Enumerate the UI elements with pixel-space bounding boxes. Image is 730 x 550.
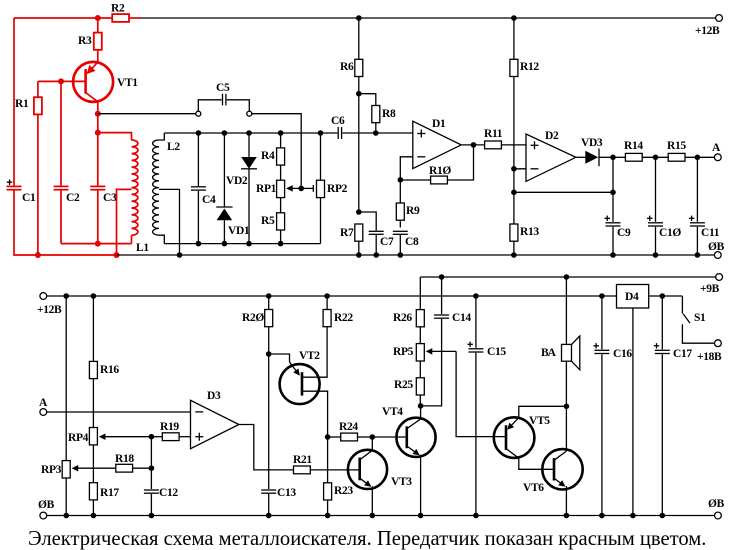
svg-text:C2: C2 xyxy=(66,192,80,204)
wire +9V rail xyxy=(420,276,715,278)
svg-text:L1: L1 xyxy=(136,242,149,254)
op-amp D1 xyxy=(413,118,461,169)
wire C5 node line xyxy=(98,113,196,115)
resistor R21 xyxy=(293,454,360,474)
svg-text:C17: C17 xyxy=(673,348,692,360)
svg-text:D3: D3 xyxy=(207,390,221,402)
potentiometer RP5 xyxy=(393,344,456,378)
node RP3 top xyxy=(63,293,69,299)
svg-text:R25: R25 xyxy=(394,379,413,391)
resistor R18 xyxy=(115,453,151,472)
wire VT4 base link xyxy=(372,436,407,438)
node C4 bottom xyxy=(196,241,202,247)
resistor R17 xyxy=(89,483,119,516)
resistor R16 xyxy=(89,296,119,428)
capacitor C10 xyxy=(647,157,681,255)
svg-text:R2: R2 xyxy=(111,3,125,15)
transistor VT2 xyxy=(280,327,328,437)
node R18 right junction xyxy=(149,465,155,471)
svg-text:VT1: VT1 xyxy=(117,77,138,89)
svg-text:VD3: VD3 xyxy=(581,137,603,149)
transistor VT6 xyxy=(523,406,583,515)
node R22 top xyxy=(324,293,330,299)
node VT3 collector junction xyxy=(370,434,376,440)
svg-text:R7: R7 xyxy=(340,227,354,239)
wire C6 to D1 plus input xyxy=(342,132,412,134)
node C10 bottom xyxy=(653,252,659,258)
node red C5 line xyxy=(95,111,101,117)
svg-text:R12: R12 xyxy=(520,61,539,73)
wire VT1 collector down xyxy=(97,102,99,186)
svg-text:D4: D4 xyxy=(625,291,639,303)
svg-text:+12В: +12В xyxy=(695,25,720,37)
terminal +12V top xyxy=(695,15,722,37)
svg-text:R19: R19 xyxy=(160,421,179,433)
svg-text:ØВ: ØВ xyxy=(38,499,55,511)
capacitor C8 xyxy=(393,231,419,255)
resistor R14 xyxy=(613,140,668,161)
node R8 bottom xyxy=(373,130,379,136)
node C12 bottom rail xyxy=(149,513,155,519)
wire red C2/C3/L1 bottom link xyxy=(61,243,132,245)
svg-text:R6: R6 xyxy=(340,61,354,73)
diode VD1 xyxy=(216,133,250,244)
resistor R24 xyxy=(328,421,373,441)
node D4 bottom rail xyxy=(630,513,636,519)
wire 0V rail top section xyxy=(117,254,715,256)
node R12 top xyxy=(511,15,517,21)
resistor R5 xyxy=(261,198,285,244)
node R14/R15/C10 junction xyxy=(653,155,659,161)
svg-text:C16: C16 xyxy=(613,348,632,360)
node BA top rail xyxy=(564,274,570,280)
svg-text:D2: D2 xyxy=(545,130,559,142)
diode VD2 xyxy=(226,133,257,244)
potentiometer RP1 xyxy=(256,180,301,197)
node C16 bottom rail xyxy=(599,513,605,519)
node R6/R8 junction xyxy=(356,91,362,97)
resistor R11 xyxy=(484,128,526,149)
op-amp D2 xyxy=(526,130,576,181)
svg-text:C11: C11 xyxy=(701,227,720,239)
svg-text:ВА: ВА xyxy=(541,347,557,359)
node wiper junction RP4 xyxy=(149,434,155,440)
wire D4 output to switch xyxy=(649,295,683,297)
resistor R2 xyxy=(111,3,141,22)
node RP1 wiper junction xyxy=(298,186,304,192)
svg-text:R26: R26 xyxy=(393,312,412,324)
node red L1 top xyxy=(95,130,101,136)
node R13 bottom xyxy=(511,252,517,258)
resistor R19 xyxy=(151,421,190,441)
svg-text:RP3: RP3 xyxy=(41,464,62,476)
wire VT2 emitter connection xyxy=(269,354,290,362)
svg-text:C4: C4 xyxy=(202,194,216,206)
resistor R6 xyxy=(340,18,363,212)
node D1 output xyxy=(471,142,477,148)
wire top bus black to +12V terminal xyxy=(141,17,717,19)
node C5 left open circle xyxy=(196,111,201,116)
potentiometer RP3 xyxy=(41,296,116,516)
capacitor C1 xyxy=(7,180,36,205)
svg-text:VD2: VD2 xyxy=(226,175,248,187)
svg-text:+9В: +9В xyxy=(700,283,720,295)
node C11 bottom xyxy=(695,252,701,258)
capacitor C9 xyxy=(605,216,631,255)
resistor R15 xyxy=(667,140,715,161)
svg-text:ØВ: ØВ xyxy=(708,498,725,510)
wire R4 leads xyxy=(280,133,282,148)
svg-text:L2: L2 xyxy=(167,141,180,153)
capacitor C11 xyxy=(689,157,720,255)
node VT6 emitter rail xyxy=(564,513,570,519)
capacitor C3 xyxy=(90,186,117,243)
capacitor C12 xyxy=(144,437,178,516)
node R4 top xyxy=(278,130,284,136)
svg-text:Электрическая схема металлоиск: Электрическая схема металлоискателя. Пер… xyxy=(28,528,706,550)
resistor R7 xyxy=(340,224,363,255)
terminal A top xyxy=(712,142,721,161)
wire D1 output xyxy=(461,144,484,146)
node R7/C7 junction xyxy=(356,209,362,215)
wire D2 inverting input xyxy=(514,169,526,224)
svg-text:C7: C7 xyxy=(380,236,394,248)
wire A line to D3 xyxy=(47,411,191,413)
node VD1 top xyxy=(222,130,228,136)
wire red C1 bottom to 0V bus xyxy=(14,191,117,256)
svg-text:D1: D1 xyxy=(432,118,446,130)
svg-text:R22: R22 xyxy=(334,312,353,324)
node R15/C11 junction xyxy=(695,155,701,161)
wire D1 inverting input xyxy=(400,157,413,228)
svg-text:R24: R24 xyxy=(339,421,358,433)
node RP3 bottom rail xyxy=(63,513,69,519)
wire 0V rail bottom section xyxy=(47,515,715,517)
svg-text:C12: C12 xyxy=(159,487,178,499)
wire C5 right to RP1 wiper tap xyxy=(252,114,301,189)
terminal +12V bottom section xyxy=(37,293,62,316)
resistor R3 xyxy=(78,18,102,62)
node C5 right open circle xyxy=(247,111,252,116)
capacitor C2 xyxy=(54,81,80,243)
terminal +18V xyxy=(697,340,722,363)
svg-text:+18В: +18В xyxy=(697,351,722,363)
svg-text:R4: R4 xyxy=(261,150,275,162)
terminal 0V bottom left xyxy=(38,499,55,519)
node C8 bottom xyxy=(398,252,404,258)
svg-text:VT3: VT3 xyxy=(391,476,412,488)
transistor VT4 xyxy=(382,406,436,516)
node R16 top xyxy=(91,293,97,299)
capacitor C16 xyxy=(593,296,632,516)
wire diode bus xyxy=(164,243,320,245)
inductor L2 xyxy=(153,133,181,244)
svg-text:R23: R23 xyxy=(334,485,353,497)
resistor R20 xyxy=(242,296,273,354)
svg-text:VT2: VT2 xyxy=(299,350,320,362)
svg-text:R13: R13 xyxy=(520,226,539,238)
svg-text:R8: R8 xyxy=(382,108,396,120)
wire D2 feedback line xyxy=(514,191,613,193)
wire VT1 base xyxy=(38,80,86,82)
resistor R25 xyxy=(394,378,424,406)
svg-text:C5: C5 xyxy=(216,82,230,94)
node C14 top rail xyxy=(439,274,445,280)
svg-text:RP2: RP2 xyxy=(327,183,348,195)
svg-text:ØВ: ØВ xyxy=(708,241,725,253)
wire red left rail down to C1 xyxy=(13,18,15,186)
transistor VT3 xyxy=(348,437,412,516)
wire L2 center tap to 0V xyxy=(159,189,180,255)
svg-text:R21: R21 xyxy=(293,454,312,466)
wire output node down to feedback xyxy=(612,157,614,222)
capacitor C4 xyxy=(191,133,216,244)
voltage regulator D4 xyxy=(617,285,649,516)
svg-text:C6: C6 xyxy=(331,115,345,127)
node C16 top xyxy=(599,293,605,299)
svg-text:A: A xyxy=(712,142,721,154)
terminal +9V xyxy=(700,274,722,295)
svg-text:R1: R1 xyxy=(15,98,29,110)
svg-text:C14: C14 xyxy=(452,312,471,324)
wire +12V red top bus left xyxy=(14,17,112,19)
wire RP5 wiper to VT5 base xyxy=(456,351,506,436)
svg-text:C15: C15 xyxy=(487,346,506,358)
node R5 bottom xyxy=(278,241,284,247)
capacitor C5 xyxy=(198,82,249,111)
node C17 top xyxy=(660,293,666,299)
svg-text:C3: C3 xyxy=(103,192,117,204)
capacitor C17 xyxy=(654,296,693,516)
node D2 feedback junction xyxy=(511,190,517,196)
speaker BA xyxy=(541,277,580,406)
svg-text:VT5: VT5 xyxy=(529,415,550,427)
svg-text:R14: R14 xyxy=(624,140,643,152)
node R23 bottom rail xyxy=(325,513,331,519)
node red C2 top xyxy=(58,78,64,84)
node D2 inv input xyxy=(511,166,517,172)
node VT4 emitter rail xyxy=(418,513,424,519)
svg-text:VT6: VT6 xyxy=(523,482,544,494)
node R20 top xyxy=(266,293,272,299)
svg-text:RP5: RP5 xyxy=(393,346,414,358)
svg-text:R15: R15 xyxy=(667,140,686,152)
node VT5 emitter / speaker junction xyxy=(564,404,570,410)
resistor R26 xyxy=(393,277,424,344)
svg-text:C1: C1 xyxy=(22,192,36,204)
wire D3 output xyxy=(239,425,294,470)
transistor VT1 xyxy=(73,62,138,102)
node C9 top feedback xyxy=(610,190,616,196)
wire +12V bus bottom section xyxy=(47,295,617,297)
wire mid bus (detector) xyxy=(164,132,337,134)
node VT4 collector junction xyxy=(418,403,424,409)
resistor R22 xyxy=(323,296,353,327)
resistor R9 xyxy=(396,203,420,220)
node R6 top xyxy=(356,15,362,21)
svg-text:C1Ø: C1Ø xyxy=(659,227,681,239)
svg-text:S1: S1 xyxy=(694,312,706,324)
node L2 tap on 0V rail xyxy=(177,252,183,258)
op-amp D3 xyxy=(191,390,239,449)
diode VD3 xyxy=(576,137,613,166)
node red junction R2/R3 xyxy=(95,15,101,21)
resistor R13 xyxy=(510,224,539,255)
resistor R1 xyxy=(15,81,42,255)
node C7 bottom xyxy=(373,252,379,258)
node VT3 emitter rail xyxy=(370,513,376,519)
svg-text:+12В: +12В xyxy=(37,304,62,316)
node VD2 top xyxy=(246,130,252,136)
node red R1 bottom xyxy=(35,252,41,258)
svg-text:R18: R18 xyxy=(115,453,134,465)
resistor R8 xyxy=(359,94,396,133)
svg-text:C13: C13 xyxy=(277,487,296,499)
capacitor C13 xyxy=(261,354,296,516)
svg-text:R2Ø: R2Ø xyxy=(242,312,264,324)
svg-text:R16: R16 xyxy=(100,364,119,376)
svg-text:RP1: RP1 xyxy=(256,183,277,195)
node C17 bottom rail xyxy=(660,513,666,519)
node RP2 top xyxy=(318,130,324,136)
node R7 bottom xyxy=(356,252,362,258)
svg-text:VT4: VT4 xyxy=(382,406,403,418)
node VD3 output xyxy=(610,155,616,161)
svg-text:R17: R17 xyxy=(100,487,119,499)
svg-text:R9: R9 xyxy=(406,205,420,217)
switch S1 xyxy=(682,296,714,343)
node C15 bottom rail xyxy=(473,513,479,519)
wire red L1 center tap xyxy=(117,189,132,255)
capacitor C6 xyxy=(331,115,345,139)
node VT2 collector / R24 junction xyxy=(325,434,331,440)
svg-text:R11: R11 xyxy=(484,128,503,140)
svg-text:R3: R3 xyxy=(78,35,92,47)
svg-text:R1Ø: R1Ø xyxy=(429,165,451,177)
resistor R12 xyxy=(510,18,539,169)
svg-text:VD1: VD1 xyxy=(228,225,250,237)
node R17 bottom rail xyxy=(91,513,97,519)
potentiometer RP2 xyxy=(301,133,347,244)
node C13 bottom rail xyxy=(266,513,272,519)
resistor R10 feedback xyxy=(400,145,473,184)
svg-text:RP4: RP4 xyxy=(68,432,89,444)
node red L1 tap bottom xyxy=(114,252,120,258)
node D1 inv input / R9 top xyxy=(398,177,404,183)
svg-text:R5: R5 xyxy=(261,215,275,227)
terminal A bottom xyxy=(39,397,48,415)
terminal 0V bottom right xyxy=(708,498,725,519)
node red C3 bottom xyxy=(95,241,101,247)
capacitor C14 xyxy=(421,277,472,406)
capacitor C7 xyxy=(359,212,394,255)
node R20 bottom / VT2 emitter xyxy=(266,351,272,357)
node C15 top xyxy=(473,293,479,299)
inductor L1 xyxy=(98,133,150,254)
resistor R4 xyxy=(261,148,285,165)
svg-text:C9: C9 xyxy=(617,227,631,239)
node C9 bottom xyxy=(610,252,616,258)
potentiometer RP4 xyxy=(68,428,151,483)
node VD1 bottom xyxy=(222,241,228,247)
terminal 0V top xyxy=(708,241,725,258)
svg-text:C8: C8 xyxy=(405,236,419,248)
resistor R23 xyxy=(324,437,354,516)
svg-text:A: A xyxy=(39,397,48,409)
node VD2 bottom xyxy=(246,241,252,247)
transistor VT5 xyxy=(494,406,567,469)
node C4 top xyxy=(196,130,202,136)
capacitor C15 xyxy=(467,296,506,516)
